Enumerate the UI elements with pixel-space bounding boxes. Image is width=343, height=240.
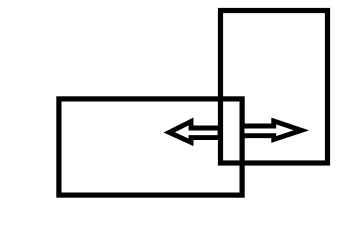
arrow (right-pointing, outlined) xyxy=(242,121,301,140)
rectangle B (tall, top-right) xyxy=(221,11,328,164)
arrow (left-pointing, outlined) xyxy=(169,122,220,143)
rectangle A (wide, bottom-left) xyxy=(59,99,242,195)
